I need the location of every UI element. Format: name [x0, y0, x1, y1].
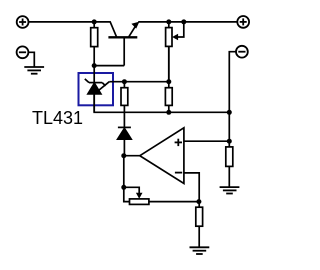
- node dot P1 wiper top: [181, 19, 186, 24]
- op-amp U2: [140, 128, 184, 184]
- resistor R1: [91, 22, 98, 66]
- node dot R2 top: [122, 79, 127, 84]
- potentiometer P2: [124, 187, 199, 204]
- wire top rail right: [138, 21, 237, 23]
- node dot rail/R3: [166, 110, 171, 115]
- wire op-amp output: [124, 155, 140, 157]
- node dot R1 bottom / TL431 cathode: [92, 63, 97, 68]
- potentiometer P1: [166, 22, 184, 82]
- terminal - (top-right): [236, 46, 248, 58]
- terminal + (top-right): [237, 16, 249, 28]
- node dot R3 top: [166, 79, 171, 84]
- P1 wiper arrowhead: [172, 34, 178, 41]
- resistor R2: [121, 82, 128, 113]
- wire from - terminal to ground: [28, 52, 34, 67]
- node dot + input / R5: [227, 139, 232, 144]
- wire output node down: [123, 156, 125, 188]
- node dot op-amp output: [121, 153, 126, 158]
- wire top rail left: [29, 21, 110, 23]
- transistor Q1: [94, 21, 139, 65]
- terminal - (top-left): [17, 46, 29, 58]
- node dot pot P1 top: [166, 19, 171, 24]
- TL431 blue box: [79, 73, 114, 105]
- terminal + (top-left): [17, 16, 29, 28]
- wire from top-right - terminal down right side: [229, 52, 236, 147]
- node dot rail/right wire: [227, 110, 232, 115]
- ground (top-left): [24, 67, 44, 74]
- node dot pot P2 junction: [121, 185, 126, 190]
- resistor R5: [226, 147, 233, 187]
- P2 wiper arrowhead: [136, 193, 143, 199]
- resistor R4: [196, 202, 203, 248]
- svg-text:TL431: TL431: [32, 108, 83, 128]
- wire - input down: [184, 173, 199, 202]
- wire ref node: [109, 81, 169, 83]
- node dot R1 top: [92, 19, 97, 24]
- wire bottom rail: [94, 94, 229, 112]
- node dot R4 top: [196, 199, 201, 204]
- ground (bottom): [190, 247, 210, 254]
- ground (right): [220, 187, 240, 193]
- resistor R3: [165, 46, 172, 112]
- wire + input to right node: [184, 140, 229, 142]
- TL431 U1: [85, 66, 110, 113]
- diode D1: [118, 112, 132, 155]
